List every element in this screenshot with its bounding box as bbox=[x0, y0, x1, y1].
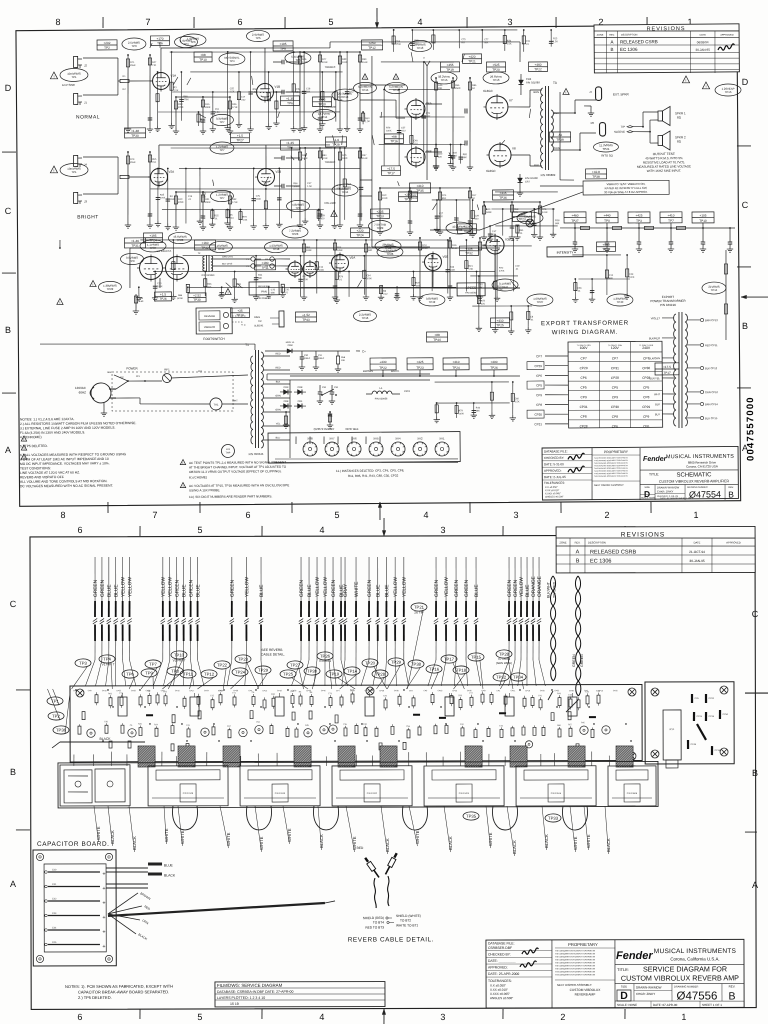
resistor bbox=[120, 697, 123, 705]
label ellipse TP15 vmean bbox=[362, 74, 368, 80]
svg-text:GREEN: GREEN bbox=[513, 579, 519, 597]
svg-text:+180: +180 bbox=[261, 261, 268, 265]
svg-text:TP7: TP7 bbox=[149, 662, 157, 667]
svg-text:CP50: CP50 bbox=[723, 714, 729, 716]
svg-text:SERVICE DIAGRAM FOR: SERVICE DIAGRAM FOR bbox=[643, 964, 727, 973]
svg-text:CHECKED BY:: CHECKED BY: bbox=[488, 952, 511, 956]
test point TP34 bbox=[510, 673, 526, 681]
svg-text:WHITE: WHITE bbox=[488, 832, 493, 846]
svg-text:YELLOW: YELLOW bbox=[519, 577, 525, 597]
svg-text:C40: C40 bbox=[52, 868, 57, 871]
svg-text:1.5K: 1.5K bbox=[515, 401, 520, 403]
component column bbox=[212, 92, 214, 126]
svg-text:TP18: TP18 bbox=[602, 247, 610, 251]
svg-text:+425: +425 bbox=[636, 214, 643, 218]
wire blue bbox=[183, 557, 185, 601]
reverb network B bbox=[419, 238, 422, 294]
svg-text:+202: +202 bbox=[103, 41, 110, 45]
svg-text:TP26: TP26 bbox=[387, 252, 394, 256]
svg-text:TP1: TP1 bbox=[71, 75, 77, 79]
svg-text:D: D bbox=[5, 83, 12, 93]
svg-text:3: 3 bbox=[507, 17, 512, 27]
svg-text:193K: 193K bbox=[306, 249, 312, 252]
svg-text:CR4: CR4 bbox=[298, 400, 303, 403]
capacitor board inner outline bbox=[44, 864, 106, 952]
svg-text:C77: C77 bbox=[484, 39, 489, 41]
component column bbox=[255, 256, 258, 294]
wire bbox=[257, 753, 259, 765]
svg-text:CP19: CP19 bbox=[404, 390, 411, 393]
component column bbox=[552, 209, 554, 231]
svg-text:TP24: TP24 bbox=[452, 366, 460, 370]
svg-text:CP8: CP8 bbox=[88, 690, 92, 692]
component column bbox=[362, 112, 364, 124]
svg-text:+250: +250 bbox=[368, 41, 375, 45]
test point TP12 bbox=[201, 670, 217, 678]
svg-text:REVERB AMP: REVERB AMP bbox=[575, 992, 596, 996]
component column bbox=[291, 148, 292, 218]
component column bbox=[475, 272, 477, 297]
svg-text:5: 5 bbox=[197, 525, 202, 535]
svg-text:DATE: _________: DATE: _________ bbox=[488, 959, 516, 963]
svg-text:B: B bbox=[728, 991, 735, 1003]
svg-text:TP7: TP7 bbox=[219, 196, 225, 200]
tube socket XV5 bbox=[369, 442, 383, 456]
svg-text:241K: 241K bbox=[382, 197, 388, 200]
svg-text:CP37 BLK: CP37 BLK bbox=[345, 427, 358, 431]
svg-text:TIP: TIP bbox=[621, 125, 626, 129]
export transformer primary coil bbox=[674, 314, 676, 322]
svg-text:CSRBSER.DBF: CSRBSER.DBF bbox=[488, 946, 512, 950]
wire yellow bbox=[122, 557, 124, 601]
svg-text:CABLE DETAIL.: CABLE DETAIL. bbox=[261, 652, 285, 656]
resistor bbox=[597, 695, 600, 703]
svg-text:PROPRIETARY: PROPRIETARY bbox=[604, 450, 629, 454]
svg-text:REVISIONS: REVISIONS bbox=[621, 531, 665, 538]
svg-text:171K: 171K bbox=[232, 106, 238, 109]
thermistor TH1 bbox=[210, 398, 222, 410]
wire bbox=[389, 752, 391, 766]
svg-text:TP19: TP19 bbox=[218, 247, 225, 251]
tube V3B bbox=[486, 236, 504, 254]
svg-text:BRN: BRN bbox=[534, 90, 540, 94]
wire bbox=[276, 753, 278, 766]
svg-text:WHT: WHT bbox=[654, 392, 660, 396]
label box TP11 bbox=[254, 260, 275, 270]
svg-text:CUSTOM VIBROLUX REVERB AMPLIFI: CUSTOM VIBROLUX REVERB AMPLIFIER bbox=[659, 479, 730, 484]
svg-text:5: 5 bbox=[314, 452, 315, 454]
svg-text:V5B: V5B bbox=[443, 255, 449, 259]
wire green bbox=[176, 557, 178, 601]
svg-text:XV4: XV4 bbox=[395, 437, 401, 441]
svg-text:CP18: CP18 bbox=[525, 690, 530, 692]
export transformer core bbox=[678, 312, 680, 428]
svg-text:BLUE: BLUE bbox=[307, 584, 313, 597]
svg-text:THIS DRAWING DOCUMENT CONTAINS: THIS DRAWING DOCUMENT CONTAINS IN bbox=[555, 964, 596, 967]
svg-text:2.) TP5 DELETED.: 2.) TP5 DELETED. bbox=[78, 995, 112, 1000]
svg-text:FILM/DWG: SERVICE DIAGRAM: FILM/DWG: SERVICE DIAGRAM bbox=[217, 983, 283, 988]
svg-text:RED TO BT3: RED TO BT3 bbox=[365, 926, 384, 930]
svg-text:RELEASED CSRB: RELEASED CSRB bbox=[590, 549, 637, 555]
socket row wires bbox=[275, 458, 458, 461]
svg-text:TP20: TP20 bbox=[365, 661, 376, 666]
svg-text:409K: 409K bbox=[178, 201, 184, 204]
svg-text:+425: +425 bbox=[416, 360, 423, 364]
label box TP19 mid bbox=[399, 192, 418, 202]
svg-text:TP7: TP7 bbox=[219, 120, 225, 124]
svg-text:C29: C29 bbox=[475, 215, 480, 217]
svg-text:CP36 STANDBY: CP36 STANDBY bbox=[314, 427, 335, 431]
label box TP30 bbox=[125, 128, 146, 138]
svg-text:B: B bbox=[10, 767, 16, 777]
svg-text:1: 1 bbox=[327, 445, 328, 447]
standby switch bbox=[322, 389, 334, 395]
component column bbox=[606, 255, 609, 295]
svg-text:0047557000: 0047557000 bbox=[745, 396, 757, 461]
black wire left bbox=[60, 741, 145, 743]
T1 secondary tap bbox=[263, 411, 290, 413]
svg-text:CP10: CP10 bbox=[175, 690, 180, 692]
component column bbox=[436, 200, 438, 226]
svg-text:CP11: CP11 bbox=[511, 690, 516, 692]
svg-text:CP6: CP6 bbox=[580, 376, 586, 380]
label ellipse TP19 reverb bbox=[209, 241, 232, 252]
speaker SPKR 1 bbox=[658, 111, 663, 121]
svg-text:+202: +202 bbox=[318, 98, 325, 102]
svg-text:R11, R85, R41, R43, C88, C30,: R11, R85, R41, R43, C88, C30, CP32 bbox=[348, 474, 399, 478]
svg-text:CR8: CR8 bbox=[284, 400, 289, 403]
reverb cable RCA plug red bbox=[363, 856, 381, 878]
component column bbox=[412, 272, 414, 294]
resistor bbox=[164, 696, 167, 704]
svg-text:R36: R36 bbox=[207, 284, 212, 286]
svg-text:DATE: DATE bbox=[694, 540, 701, 544]
wire bbox=[153, 269, 495, 274]
svg-text:CHECKED BY:: CHECKED BY: bbox=[544, 456, 564, 460]
wire bbox=[126, 754, 128, 766]
svg-text:YELLOW: YELLOW bbox=[167, 577, 173, 597]
svg-text:TP14: TP14 bbox=[711, 288, 718, 292]
bias network bbox=[285, 412, 287, 422]
svg-text:THIS DRAWING DOCUMENT CONTAINS: THIS DRAWING DOCUMENT CONTAINS IN bbox=[555, 955, 596, 958]
input jack J3 bbox=[74, 192, 78, 203]
svg-text:TP23: TP23 bbox=[238, 657, 249, 662]
resistor bbox=[558, 698, 561, 706]
footswitch box bbox=[196, 308, 232, 334]
svg-text:CP5: CP5 bbox=[536, 383, 542, 387]
wire bbox=[495, 224, 557, 227]
component column bbox=[278, 168, 281, 221]
test point TP9 bbox=[141, 669, 157, 677]
test point TP33 bbox=[545, 814, 561, 822]
component column bbox=[156, 72, 159, 125]
svg-text:CP8: CP8 bbox=[643, 395, 649, 399]
resistor bbox=[310, 697, 313, 705]
svg-text:NEXT HIGHER ASSEMBLY:: NEXT HIGHER ASSEMBLY: bbox=[594, 484, 624, 487]
svg-text:1: 1 bbox=[349, 445, 350, 447]
svg-text:YELLOW: YELLOW bbox=[161, 577, 167, 597]
svg-text:R59: R59 bbox=[253, 89, 258, 91]
svg-text:+440: +440 bbox=[603, 243, 610, 247]
label ellipse TP16 bbox=[483, 72, 509, 84]
reverb cable wires bbox=[374, 878, 376, 908]
svg-text:Corona, California U.S.A.: Corona, California U.S.A. bbox=[670, 956, 719, 961]
page 2 left zone ticks bbox=[16, 689, 30, 691]
svg-text:ANGLES ±0.500": ANGLES ±0.500" bbox=[545, 495, 564, 498]
svg-text:TOLERANCES:: TOLERANCES: bbox=[544, 481, 565, 485]
svg-text:TP11: TP11 bbox=[183, 672, 193, 677]
svg-text:+: + bbox=[102, 944, 105, 950]
capacitor C45 bbox=[48, 943, 100, 945]
svg-text:INTO 5Ω: INTO 5Ω bbox=[601, 153, 613, 157]
tone stack normal bbox=[300, 51, 360, 54]
svg-text:CP5: CP5 bbox=[612, 386, 618, 390]
component column bbox=[512, 240, 515, 291]
svg-text:B: B bbox=[5, 325, 11, 335]
svg-text:TP2: TP2 bbox=[104, 46, 110, 50]
svg-text:CP15: CP15 bbox=[102, 690, 107, 692]
electrolytic capacitor bbox=[568, 697, 577, 716]
wire bbox=[190, 71, 342, 73]
svg-text:V2B: V2B bbox=[275, 170, 281, 174]
svg-text:TP5: TP5 bbox=[295, 58, 301, 62]
right board diagonal resistor bbox=[697, 724, 706, 740]
svg-text:8.) (CHOME): 8.) (CHOME) bbox=[189, 475, 207, 479]
svg-text:C45: C45 bbox=[52, 941, 57, 944]
svg-text:4: 4 bbox=[423, 510, 428, 520]
svg-text:C18: C18 bbox=[306, 88, 311, 90]
svg-text:CP30: CP30 bbox=[467, 690, 472, 692]
resistor bbox=[329, 698, 332, 706]
warning triangle right bbox=[702, 82, 709, 89]
component column bbox=[166, 169, 169, 224]
wire bbox=[436, 402, 510, 403]
svg-text:VOLUME: VOLUME bbox=[324, 201, 336, 205]
svg-text:BLK/RED: BLK/RED bbox=[649, 336, 660, 340]
svg-text:R34: R34 bbox=[201, 119, 206, 121]
svg-text:ZONE: ZONE bbox=[597, 34, 604, 37]
test point TP38 bbox=[408, 660, 424, 668]
label ellipse TP21 bbox=[593, 142, 618, 152]
svg-text:GREEN: GREEN bbox=[507, 579, 513, 597]
svg-text:CP2: CP2 bbox=[409, 690, 413, 692]
svg-text:SLEEVE: SLEEVE bbox=[254, 324, 264, 327]
svg-text:CP9: CP9 bbox=[424, 690, 428, 692]
misc interconnect wires bbox=[329, 42, 331, 48]
component column bbox=[384, 90, 385, 166]
svg-text:+98: +98 bbox=[200, 53, 206, 57]
test point TP4 bbox=[99, 655, 115, 663]
svg-text:TP27: TP27 bbox=[236, 138, 244, 142]
svg-text:R79: R79 bbox=[459, 410, 464, 412]
svg-text:THIS DRAWING DOCUMENT CONTAINS: THIS DRAWING DOCUMENT CONTAINS IN bbox=[555, 970, 596, 973]
svg-text:Corona, CA 91720 USA: Corona, CA 91720 USA bbox=[686, 464, 718, 468]
svg-text:APPROVED: APPROVED bbox=[720, 34, 734, 37]
svg-text:TP25: TP25 bbox=[496, 323, 504, 327]
fuse RF1 bbox=[145, 380, 162, 382]
tube socket row box bbox=[268, 432, 460, 464]
svg-text:XV5: XV5 bbox=[373, 436, 379, 440]
svg-text:CP6: CP6 bbox=[612, 424, 618, 428]
svg-text:!: ! bbox=[53, 168, 54, 173]
svg-text:TP14: TP14 bbox=[321, 115, 328, 119]
reservoir caps bbox=[301, 351, 303, 357]
component column bbox=[315, 240, 318, 294]
page 1 border frame bbox=[16, 25, 741, 506]
power neutral wire bbox=[116, 397, 140, 399]
svg-text:+170: +170 bbox=[157, 37, 164, 41]
svg-text:REV.: REV. bbox=[729, 985, 736, 989]
diode CR7 bbox=[519, 174, 521, 190]
long bus wire y344 bbox=[40, 342, 255, 345]
test point TP19 bbox=[326, 670, 342, 678]
svg-text:441K: 441K bbox=[542, 211, 548, 214]
label ellipse TP15 bbox=[431, 72, 457, 84]
svg-text:WIRING DIAGRAM.: WIRING DIAGRAM. bbox=[552, 329, 619, 337]
svg-text:1: 1 bbox=[305, 445, 306, 447]
component column bbox=[347, 52, 348, 125]
svg-text:CP17: CP17 bbox=[189, 690, 194, 692]
wire bbox=[408, 752, 410, 766]
component column bbox=[239, 209, 241, 223]
resistor bbox=[577, 700, 580, 708]
right edge chain bbox=[725, 250, 726, 340]
svg-text:V2 PIN 7: V2 PIN 7 bbox=[173, 658, 186, 662]
svg-text:DRAWN-WH/MDW: DRAWN-WH/MDW bbox=[636, 985, 662, 989]
svg-text:100K: 100K bbox=[497, 289, 503, 291]
svg-text:V5A: V5A bbox=[350, 256, 356, 260]
svg-text:(GRN WIRE): (GRN WIRE) bbox=[496, 661, 512, 665]
svg-text:C66: C66 bbox=[577, 288, 582, 290]
svg-text:1: 1 bbox=[681, 1012, 686, 1022]
svg-text:TP40: TP40 bbox=[617, 300, 624, 304]
wire loop bbox=[246, 806, 271, 830]
svg-text:BLUE: BLUE bbox=[195, 584, 201, 597]
component column bbox=[238, 72, 241, 121]
svg-text:TOLERANCES:: TOLERANCES: bbox=[488, 979, 512, 983]
svg-text:TP43: TP43 bbox=[302, 318, 310, 322]
wire yellow bbox=[445, 557, 447, 601]
component column bbox=[318, 210, 320, 222]
svg-text:EXPORT TRANSFORMER: EXPORT TRANSFORMER bbox=[541, 320, 629, 328]
electrolytic capacitor bbox=[118, 697, 127, 716]
label ellipse right TP14 bbox=[702, 282, 726, 294]
component column bbox=[516, 226, 518, 234]
svg-text:1: 1 bbox=[415, 445, 416, 447]
more label boxes bbox=[150, 36, 169, 46]
footswitch jack bbox=[279, 311, 284, 327]
svg-text:C75: C75 bbox=[461, 39, 466, 41]
svg-text:XV7: XV7 bbox=[329, 437, 335, 441]
component column bbox=[626, 255, 629, 293]
svg-text:TWISTED: TWISTED bbox=[553, 581, 557, 598]
wire blue bbox=[340, 557, 342, 601]
tube V1A bbox=[152, 72, 169, 89]
svg-text:P/N 33516: P/N 33516 bbox=[551, 793, 562, 795]
svg-text:TP13: TP13 bbox=[417, 46, 424, 50]
label ellipse TP3 bbox=[122, 38, 146, 50]
svg-text:.022: .022 bbox=[452, 156, 457, 158]
capacitor C43 bbox=[48, 914, 100, 916]
svg-text:CHKR: ZINKY: CHKR: ZINKY bbox=[657, 489, 674, 493]
svg-text:TP6: TP6 bbox=[126, 672, 134, 677]
pilot lamp bbox=[221, 444, 234, 457]
svg-text:TP33: TP33 bbox=[548, 816, 559, 821]
svg-text:REVISIONS: REVISIONS bbox=[647, 26, 686, 32]
wire bbox=[162, 208, 324, 211]
footswitch output wires bbox=[232, 315, 247, 317]
svg-text:CP8: CP8 bbox=[580, 415, 586, 419]
vibrato oscillator cluster bbox=[380, 187, 470, 188]
label ellipse TP23 reverb bbox=[168, 232, 191, 243]
svg-text:1.5K: 1.5K bbox=[230, 91, 235, 93]
svg-text:1.5K: 1.5K bbox=[507, 43, 512, 45]
svg-text:R35: R35 bbox=[214, 215, 219, 217]
svg-text:CP37: CP37 bbox=[481, 690, 486, 692]
twisted pair GREEN bbox=[578, 576, 581, 696]
test point TP25 bbox=[280, 670, 296, 678]
svg-text:!: ! bbox=[333, 212, 334, 217]
svg-text:R65: R65 bbox=[463, 154, 468, 156]
size box page 2 bbox=[633, 984, 635, 1001]
svg-text:CR8: CR8 bbox=[288, 344, 293, 347]
label box TP6 mid bbox=[280, 96, 299, 106]
svg-text:68K: 68K bbox=[237, 287, 242, 289]
svg-text:TH1: TH1 bbox=[214, 402, 219, 406]
svg-text:A: A bbox=[576, 549, 580, 555]
svg-text:!: ! bbox=[227, 290, 228, 295]
svg-text:+1.5: +1.5 bbox=[237, 134, 243, 138]
svg-text:.022: .022 bbox=[241, 100, 246, 102]
T1 secondary tap bbox=[263, 425, 290, 427]
svg-text:1: 1 bbox=[393, 445, 394, 447]
label ellipse reverb 2 bbox=[377, 246, 403, 258]
svg-text:+138: +138 bbox=[463, 225, 470, 229]
svg-text:5: 5 bbox=[358, 452, 359, 454]
svg-text:TP29: TP29 bbox=[377, 226, 384, 230]
component column bbox=[171, 52, 172, 122]
svg-text:WHITE: WHITE bbox=[586, 834, 591, 848]
svg-text:BRN CP13: BRN CP13 bbox=[705, 318, 718, 322]
svg-text:ZONE: ZONE bbox=[559, 541, 566, 545]
wire bbox=[307, 754, 309, 766]
power ground bbox=[103, 403, 105, 410]
svg-text:CP28: CP28 bbox=[611, 376, 619, 380]
wire yellow bbox=[316, 557, 318, 601]
svg-text:TP42: TP42 bbox=[429, 300, 436, 304]
wire bbox=[379, 144, 465, 145]
svg-text:DESCRIPTION: DESCRIPTION bbox=[621, 33, 638, 36]
more label ellipses top rows bbox=[174, 36, 197, 47]
svg-text:C27: C27 bbox=[439, 213, 444, 215]
wire stub ticks top rails bbox=[150, 43, 152, 48]
svg-text:CUSTOM VIBROLUX REVERB AMP: CUSTOM VIBROLUX REVERB AMP bbox=[621, 973, 739, 982]
svg-text:290K: 290K bbox=[205, 106, 211, 109]
svg-text:R53: R53 bbox=[202, 193, 207, 195]
svg-text:RELEASED CSRB: RELEASED CSRB bbox=[620, 39, 658, 44]
svg-text:DRAWING NUMBER: DRAWING NUMBER bbox=[674, 984, 699, 988]
reverb recovery tube V5B bbox=[424, 253, 441, 270]
svg-text:+98: +98 bbox=[391, 135, 397, 139]
wire blue bbox=[475, 557, 477, 601]
svg-text:DATE: 25-APR-2000: DATE: 25-APR-2000 bbox=[488, 972, 519, 976]
plate rail normal bbox=[161, 47, 330, 50]
wire blue bbox=[108, 557, 110, 601]
component column bbox=[411, 30, 413, 51]
svg-text:CP5: CP5 bbox=[580, 386, 586, 390]
capacitor board wires blue black bbox=[106, 867, 148, 869]
svg-text:VIBRATO: VIBRATO bbox=[204, 325, 215, 329]
